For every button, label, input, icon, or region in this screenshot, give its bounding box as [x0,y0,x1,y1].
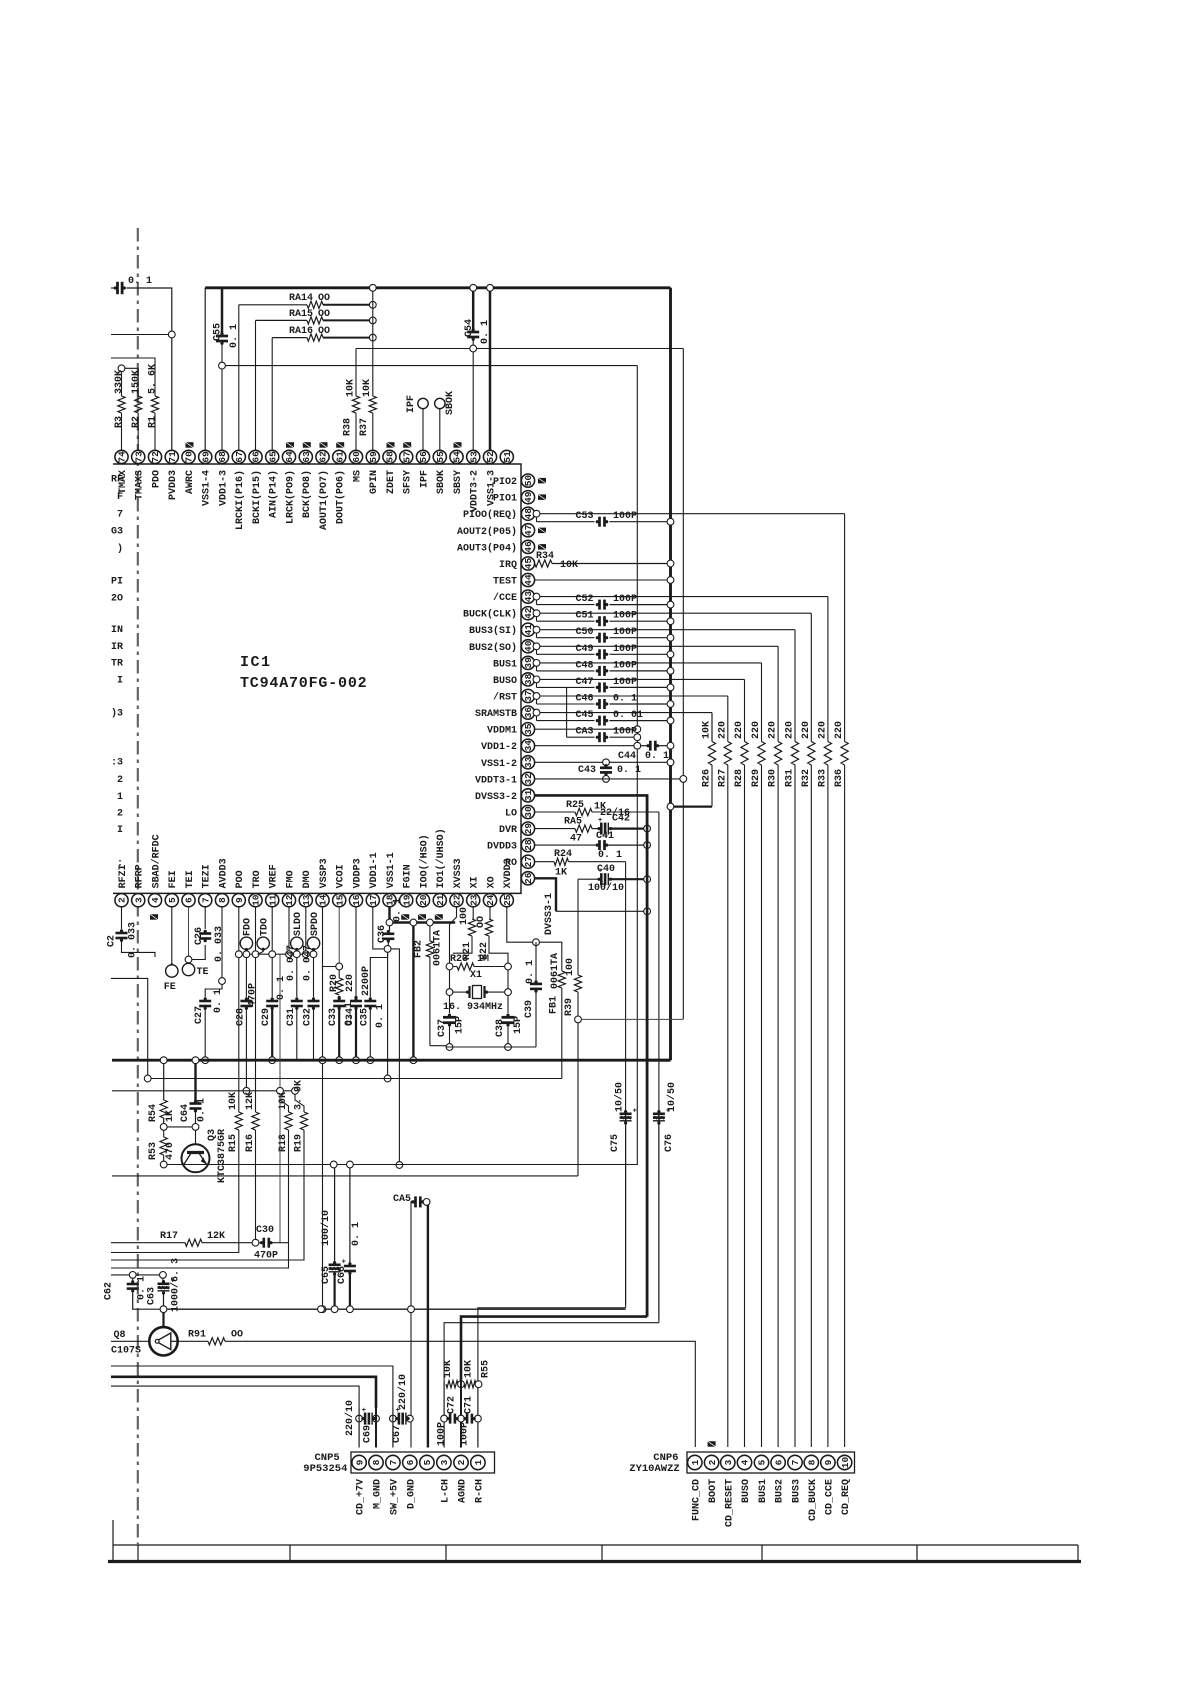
svg-text:R20: R20 [329,974,340,992]
IC pin 47 (AOUT2(P05)) right [521,524,534,537]
IC pin 21 (IO1(/UHSO)) bottom [433,894,446,907]
resistor R30 220 [775,742,782,766]
svg-text:AOUT3(P04): AOUT3(P04) [457,542,517,554]
svg-text:100P: 100P [437,1422,448,1446]
test point FDO [240,937,252,949]
svg-text:CD_+7V: CD_+7V [356,1479,367,1515]
svg-text:9: 9 [354,1459,365,1465]
capacitor C30 470P [259,1242,261,1244]
resistor R1 5.6K [151,396,158,413]
capacitor C43 0.1 [603,759,610,766]
svg-text:220: 220 [834,721,845,739]
capacitor C52 100P [536,600,538,605]
svg-text:VSS1-2: VSS1-2 [481,759,517,770]
svg-text:17: 17 [368,894,379,906]
connector CNP5 pin 7 SW_+5V [386,1455,400,1469]
svg-text:IPF: IPF [406,395,417,413]
supply rail y1165 [167,1164,637,1166]
svg-text:100: 100 [565,958,576,976]
capacitor C51 100P [536,617,538,622]
capacitor C69 220/10 electrolytic [356,1415,363,1422]
wire R28 down to CNP6 [744,765,746,1447]
svg-text:C48: C48 [575,660,593,671]
svg-text:C26: C26 [194,927,205,945]
svg-text:9P53254: 9P53254 [303,1463,347,1475]
svg-text:6: 6 [773,1459,784,1465]
audio R-CH wire C75 to CNP5 pin1 [478,1308,626,1381]
IC pin 17 (VDD1-1) bottom [366,894,379,907]
IC pin 46 (AOUT3(P04)) right [521,540,534,553]
svg-text:13: 13 [301,894,312,906]
svg-text:IR: IR [111,642,123,653]
capacitor C45 0. 01 [536,716,538,721]
IC pin 16 (VDDP3) bottom [349,894,362,907]
svg-text:10K: 10K [464,1360,475,1378]
connector CNP5 pin 1 R-CH [471,1455,485,1469]
svg-text:R29: R29 [751,769,762,787]
resistor RA5 47 on DVR [535,828,575,830]
resistor R17 12K [111,1242,185,1244]
svg-text:220: 220 [751,721,762,739]
svg-text:10: 10 [251,894,262,906]
connector CNP5 pin 9 CD_+7V [352,1455,366,1469]
svg-text:28: 28 [523,839,534,851]
svg-text:2: 2 [117,809,123,820]
IC pin 41 (BUS3(SI)) right [521,623,534,636]
svg-text:38: 38 [523,673,534,685]
svg-text:VDDM1: VDDM1 [487,726,517,737]
svg-text:IOO(/HSO): IOO(/HSO) [418,834,430,888]
svg-text:47: 47 [570,834,582,845]
wire to CNP5 pin7 SW+5V [111,1366,393,1408]
svg-text:15P: 15P [513,1016,524,1034]
svg-text:71: 71 [167,451,178,463]
resistor R25 1K on LO [535,811,575,813]
svg-text:0. 033: 0. 033 [214,926,225,962]
svg-text:C107S: C107S [111,1346,141,1357]
resistor R19 3.9K [295,1094,304,1112]
svg-text:100: 100 [459,907,470,925]
svg-text:R55: R55 [481,1360,492,1378]
svg-text:TRO: TRO [252,870,263,888]
connector CNP5 pin 3 L-CH [437,1455,451,1469]
svg-text:AIN(P14): AIN(P14) [268,470,280,518]
svg-text:100P: 100P [613,727,637,738]
wire left stub y358 to R1 [111,358,155,396]
svg-text:73: 73 [133,451,144,463]
svg-text:C63: C63 [147,1287,158,1305]
svg-text:SBAD/RFDC: SBAD/RFDC [150,834,162,888]
capacitor C36 0.1 on VSS1-1 [386,919,393,926]
resistor R33 220 [824,742,831,766]
connector CNP6 pin 10 CD_REQ [837,1455,851,1469]
svg-text:AOUT1(PO7): AOUT1(PO7) [318,470,330,530]
svg-text:0. 1: 0. 1 [645,751,669,762]
svg-text:DVSS3-1: DVSS3-1 [544,893,555,935]
svg-text:R19: R19 [294,1134,305,1152]
svg-text:56: 56 [418,451,429,463]
resistor R28 220 [741,742,748,766]
svg-text:100P: 100P [613,677,637,688]
svg-text:AGND: AGND [458,1479,469,1503]
wire pin33 VSS1-2 to bus [535,761,668,763]
svg-text:26: 26 [523,872,534,884]
svg-text:R53: R53 [148,1142,159,1160]
svg-text:2: 2 [456,1459,467,1465]
resistor R53 470 [163,1130,165,1137]
capacitor C35 0.1 [370,952,387,997]
IC pin 59 (GPIN) top [366,450,379,463]
svg-text:X1: X1 [470,970,482,981]
svg-text:C53: C53 [575,511,593,522]
svg-text:10/50: 10/50 [666,1082,678,1112]
svg-text:BUS3(SI): BUS3(SI) [469,625,517,637]
svg-text:66: 66 [251,451,262,463]
AGND thick wire to CNP5 pin2 [461,1317,647,1381]
svg-text:330K: 330K [114,370,125,394]
svg-text:2: 2 [117,775,123,786]
svg-text:35: 35 [523,723,534,735]
svg-text:FUNC_CD: FUNC_CD [691,1479,702,1521]
svg-text:RF: RF [111,475,123,486]
resistor R22 00 on XO [489,907,491,919]
wire VCOI node left [323,967,336,971]
svg-text:PIO2: PIO2 [493,477,517,488]
svg-text:OO: OO [231,1330,243,1341]
svg-text:FDO: FDO [243,918,254,936]
svg-text:SLDO: SLDO [293,912,304,936]
resistor R18 10K [280,1094,289,1112]
svg-text:BUS1: BUS1 [493,659,517,670]
IC pin 53 (VDDT3-2) top [467,450,480,463]
svg-text:34: 34 [523,740,534,752]
IC pin 52 (VSS1-3) top [483,450,496,463]
svg-text:SBSY: SBSY [453,470,464,494]
VDD rail y1078 [148,1078,562,1080]
svg-text:CA3: CA3 [575,727,593,738]
resistor R31 220 [791,742,798,766]
svg-text:C64: C64 [180,1104,191,1122]
svg-text:220: 220 [768,721,779,739]
svg-text:42: 42 [523,607,534,619]
svg-text:VDD1-1: VDD1-1 [369,852,380,888]
connector CNP6 pin 5 BUS1 [754,1455,768,1469]
capacitor C72 100P [441,1415,448,1422]
connector CNP6 pin 3 CD_RESET [721,1455,735,1469]
svg-text:0. 1: 0. 1 [617,765,641,776]
svg-text:AOUT2(P05): AOUT2(P05) [457,526,517,538]
crystal left rail [446,963,453,970]
svg-text:R28: R28 [734,769,745,787]
svg-text:C38: C38 [495,1019,506,1037]
bus corner down right thick [669,288,672,1060]
resistor RA16 00 (P14 link) [271,338,273,450]
svg-text:5: 5 [167,897,178,903]
IC pin 9 (POO) bottom [232,894,245,907]
svg-text:XO: XO [486,876,497,888]
IC pin 70 (AWRC) top [182,450,195,463]
node junction GPIN col on bus [369,284,376,291]
svg-text:10K: 10K [702,721,713,739]
IC pin 31 (DVSS3-2) right [521,789,534,802]
svg-text:FB1: FB1 [549,996,560,1014]
capacitor C42 22/16 electrolytic [592,828,598,830]
wire R-CH col [477,1388,479,1448]
svg-text:0. 047: 0. 047 [303,945,314,981]
svg-text:C37: C37 [437,1019,448,1037]
capacitor C67 220/10 electrolytic [390,1415,397,1422]
wire R26 to thick bus [674,805,712,807]
wire pin52 VSS1-3 up to bus thick [489,291,492,450]
wire VDD net corner down x637 [636,366,638,1165]
IC pin 18 (VSS1-1) bottom [383,894,396,907]
IC pin 25 (XVDD3) bottom [500,894,513,907]
svg-text:3. 9K: 3. 9K [294,1080,305,1110]
svg-text:C49: C49 [575,644,593,655]
svg-text:3: 3 [439,1459,450,1465]
svg-text:AWRC: AWRC [185,470,196,494]
page border / title block [112,1520,114,1561]
svg-text:IRQ: IRQ [499,560,517,571]
IC pin 12 (FMO) bottom [282,894,295,907]
IC pin 13 (DMO) bottom [299,894,312,907]
svg-text:100/10: 100/10 [320,1210,332,1246]
svg-text:C71: C71 [464,1396,475,1414]
node junction top of R3 [118,365,125,372]
svg-text:100P: 100P [613,511,637,522]
IC pin 37 (/RST) right [521,689,534,702]
wire VSSP3 col to lower rail [322,1064,324,1306]
svg-text:470P: 470P [254,1251,278,1262]
svg-text:C28: C28 [235,1008,246,1026]
svg-text:R26: R26 [702,769,713,787]
svg-text:10K: 10K [346,379,357,397]
resistor R21 100 on XI [472,907,474,919]
wire Q8 collector to ground rail [162,1313,164,1328]
svg-text:CD_BUCK: CD_BUCK [808,1479,819,1521]
wire VSSP3 pin14 to ground rail [322,907,324,1057]
svg-text:0. 1: 0. 1 [213,989,224,1013]
svg-text:C40: C40 [597,864,615,875]
svg-text:0061TA: 0061TA [550,953,561,989]
svg-text:TEZI: TEZI [202,864,213,888]
svg-text:40: 40 [523,640,534,652]
IC pin 50 (PIO2) right [521,474,534,487]
wire CA5 right lead thick to CNP5 pin5 [427,1205,429,1448]
connector CNP6 pin 9 CD_CCE [821,1455,835,1469]
resistor R23 1M [453,966,457,968]
ground riser thick x647 [646,795,649,1316]
wire pin32 VDDT3-1 to x683 column [535,778,680,780]
svg-text:VSS1-4: VSS1-4 [202,470,213,506]
svg-text:BUS1: BUS1 [758,1479,769,1503]
svg-text:22: 22 [452,894,463,906]
svg-text:CD_REQ: CD_REQ [841,1479,852,1515]
IC pin 15 (VCOI) bottom [333,894,346,907]
svg-text:100P: 100P [613,644,637,655]
IC pin 39 (BUS1) right [521,656,534,669]
svg-text:12K: 12K [207,1231,225,1242]
svg-text:220: 220 [785,721,796,739]
connector CNP5 pin 5 [420,1455,434,1469]
svg-text:VREF: VREF [269,864,280,888]
svg-text:220: 220 [801,721,812,739]
svg-text:Q8: Q8 [114,1330,126,1341]
svg-text:10K: 10K [228,1092,239,1110]
svg-text:LRCK(PO9): LRCK(PO9) [284,470,296,524]
svg-text:220: 220 [817,721,828,739]
wire AGND col [460,1381,462,1448]
svg-text:C62: C62 [104,1282,115,1300]
wire R27 down to CNP6 [727,765,729,1447]
resistor R27 220 [724,742,731,766]
svg-text:74: 74 [117,451,128,463]
svg-text:GPIN: GPIN [369,470,380,494]
VREF gray distribution column [276,954,280,1087]
svg-text:7: 7 [117,510,123,521]
svg-text:5. 6K: 5. 6K [148,364,159,394]
wire XVSS3 pin22 jog down [450,907,457,963]
svg-text:FE: FE [164,982,176,993]
resistor bank R26 10K [708,742,715,766]
svg-text:IC1: IC1 [240,654,272,671]
svg-text:SBOK: SBOK [436,470,447,494]
svg-text:100P: 100P [613,611,637,622]
wire corner down x683 [682,349,684,1020]
svg-text:10/50: 10/50 [614,1082,626,1112]
svg-text:60: 60 [351,451,362,463]
svg-text:0. 1: 0. 1 [197,1098,208,1122]
capacitor C46 0. 1 [536,699,538,704]
resistor R37 10K [369,396,376,413]
connector CNP6 pin 6 BUS2 [771,1455,785,1469]
IC pin 28 (DVDD3) right [521,839,534,852]
svg-text:C32: C32 [303,1008,314,1026]
wire pin 40 to bank column [533,643,540,650]
IC pin 54 (SBSY) top [450,450,463,463]
capacitor CA3 100P on VDDM1 [535,728,634,730]
svg-text:TR: TR [111,659,123,670]
wire pin31 DVSS3-2 ground thick [535,795,648,1316]
svg-text:220: 220 [734,721,745,739]
IC IC1 body outline [113,464,521,893]
wire R91 to CNP6 pin1 FUNC_CD [225,1341,695,1447]
svg-text:OO: OO [476,916,487,928]
svg-text:C27: C27 [194,1006,205,1024]
svg-text:C55: C55 [213,323,224,341]
wire VSS1-1 thick ground spur [393,921,455,923]
capacitor C28 470P [245,958,247,997]
wire TE node to C26 [192,945,205,960]
node junction C55/pin68 [219,362,226,369]
node junction C54 on MS net [470,345,477,352]
IC pin 7 (TEZI) bottom [199,894,212,907]
svg-text:R34: R34 [536,551,554,562]
capacitor C48 100P [536,666,538,671]
svg-text:MS: MS [352,470,363,482]
IC pin 38 (BUSO) right [521,673,534,686]
svg-text:1000/6. 3: 1000/6. 3 [170,1258,182,1312]
svg-text:C35: C35 [359,1008,370,1026]
IC pin 51 (n.c.) top [500,450,513,463]
svg-text:10K: 10K [560,560,578,571]
svg-text:RA16: RA16 [289,326,313,337]
svg-text:POO: POO [235,870,246,888]
svg-text:R36: R36 [834,769,845,787]
svg-text:C51: C51 [575,611,593,622]
svg-text:61: 61 [334,451,345,463]
svg-text:7: 7 [388,1459,399,1465]
svg-text:R1: R1 [148,416,159,428]
bias wire y1091 [112,1090,295,1092]
IC pin 44 (TEST) right [521,573,534,586]
capacitor C40 100/10 electrolytic [578,878,598,880]
svg-text:R32: R32 [801,769,812,787]
svg-text:SFSY: SFSY [403,470,414,494]
svg-text:SW_+5V: SW_+5V [389,1479,400,1515]
svg-text:8: 8 [217,897,228,903]
svg-text:): ) [117,543,123,555]
svg-text:)3: )3 [111,708,123,720]
wire thick drop to ground rail [412,926,414,1057]
IC pin 35 (VDDM1) right [521,723,534,736]
svg-text:ZDET: ZDET [386,470,397,494]
svg-text:46: 46 [523,541,534,553]
capacitor C33 0.1 [333,1000,345,1003]
svg-text:BUS2: BUS2 [775,1479,786,1503]
wire R29 down to CNP6 [761,765,763,1447]
capacitor C26 0.033 on TEZI [204,907,206,929]
svg-text:C46: C46 [575,694,593,705]
svg-text:LO: LO [505,809,517,820]
svg-text:+: + [362,1407,366,1415]
IC pin 20 (IOO(/HSO)) bottom [416,894,429,907]
wire R33 down to CNP6 [827,765,829,1447]
wire VCOI pin15 down [338,907,340,963]
IC pin 69 (VSS1-4) top [199,450,212,463]
svg-text:72: 72 [150,451,161,463]
svg-text:CA5: CA5 [393,1194,411,1205]
capacitor C2x 0.033 clipped on RFZI [121,907,123,929]
svg-text:CD_RESET: CD_RESET [724,1479,735,1527]
svg-text:8: 8 [371,1459,382,1465]
IC pin 26 (DVSS3-1) right [521,872,534,885]
svg-text:R37: R37 [359,418,370,436]
capacitor C75 10/50 electrolytic [625,1111,627,1304]
resistor R36 220 [841,742,848,766]
wire R36 down to CNP6 [844,765,846,1447]
wire R31 down to CNP6 [794,765,796,1447]
IC pin 55 (SBOK) top [433,450,446,463]
svg-text:21: 21 [435,894,446,906]
NC marker CNP6 pin2 [708,1441,716,1447]
svg-text:/RST: /RST [493,692,517,704]
svg-text:16: 16 [351,894,362,906]
capacitor C39 0.1 [535,942,537,980]
svg-text:39: 39 [523,657,534,669]
IC pin 23 (XI) bottom [467,894,480,907]
wire XVDD3 pin25 elbow to FB1 [507,907,562,971]
capacitor C66 0.1 [349,1168,351,1263]
svg-text:C31: C31 [286,1008,297,1026]
svg-text:12: 12 [284,894,295,906]
transistor Q8 C107S mute [111,1340,149,1342]
wire pins 9-13 stubs [238,907,240,951]
svg-text:15: 15 [334,894,345,906]
IC pin 2 (RFZI) bottom [115,894,128,907]
IC pin 11 (VREF) bottom [266,894,279,907]
ground rail thick y1060 [112,1059,671,1062]
